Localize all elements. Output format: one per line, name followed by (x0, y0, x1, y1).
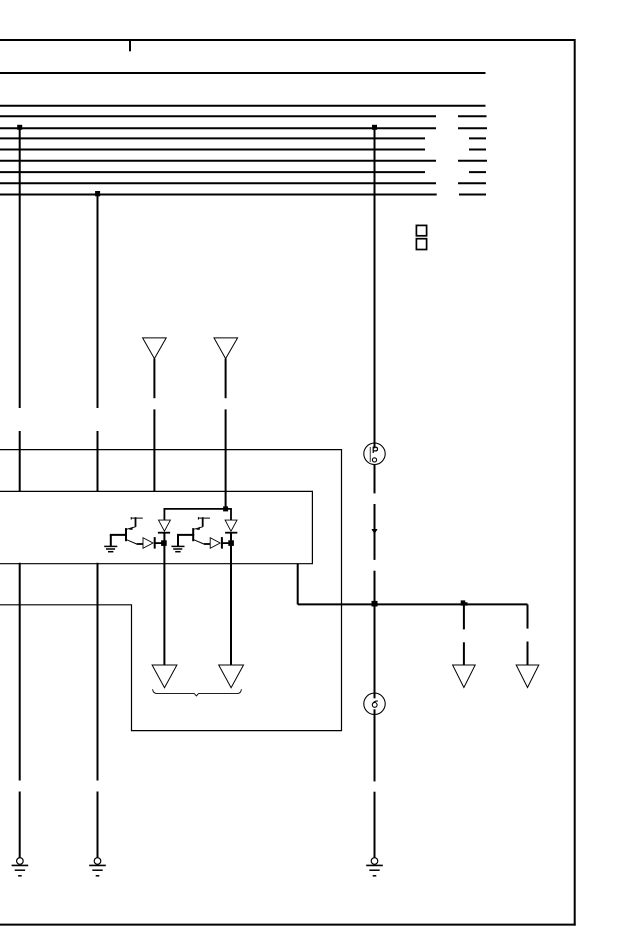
direction arrow on wire W3 (371, 529, 377, 534)
connector squares (416, 225, 426, 249)
off-page arrow triangle T6 (516, 665, 539, 688)
ground G1 (12, 858, 29, 876)
output arrow triangle T4 (219, 665, 244, 688)
diode D2 (204, 537, 231, 549)
junction node at A2 wire (223, 506, 228, 511)
bus wire row 2 (0, 105, 486, 107)
junction node D1-Z1 (161, 540, 167, 546)
junction node on row 4 at wire W1 (17, 125, 22, 130)
bus wire row 6 (0, 149, 486, 151)
junction node on row 4 at wire W3 (372, 125, 377, 130)
ground G3 (366, 858, 383, 876)
output arrow triangle T3 (152, 665, 177, 688)
ground for Q2 (171, 546, 184, 551)
bus wire row 10 (0, 194, 486, 196)
transistor Q1 (126, 517, 143, 544)
wire from A1 (153, 359, 155, 492)
bus wire row 9 (0, 182, 486, 184)
off-page arrow triangle A2 (214, 338, 238, 359)
brace under output arrows (153, 689, 242, 696)
wire W1 vertical (19, 128, 21, 857)
dropper wire to T5 (463, 604, 465, 665)
wire W3 vertical (374, 128, 376, 857)
bus wire row 1 (0, 72, 486, 74)
wire column from Z1 to output arrow (163, 533, 165, 665)
transistor Q2 (193, 517, 210, 544)
base wire of Q2 (177, 535, 194, 546)
dropper wire to T6 (527, 604, 529, 665)
junction node on row 10 at wire W2 (95, 191, 100, 196)
ECU outer box (0, 450, 342, 731)
diode D1 (137, 537, 164, 549)
bus wire row 4 (0, 127, 487, 129)
node wire across IC top (164, 509, 231, 520)
junction node D2-Z2 (228, 540, 234, 546)
bus wire row 7 (0, 160, 487, 162)
base wire of Q1 (110, 535, 127, 546)
connector circle lower (364, 693, 385, 714)
off-page arrow triangle A1 (143, 338, 167, 359)
ground for Q1 (104, 546, 117, 551)
direction arrow on output net (461, 600, 468, 605)
junction node W3 x output net (372, 601, 378, 607)
IC inner box (0, 491, 312, 563)
off-page arrow triangle T5 (453, 665, 476, 688)
output net wire from IC box (298, 564, 528, 605)
zener diode Z1 (158, 520, 171, 533)
ground G2 (89, 858, 106, 876)
connector circle P upper (364, 443, 385, 464)
wire from A2 (225, 359, 227, 508)
wire W2 vertical (97, 195, 99, 858)
bus wire row 3 (0, 115, 487, 117)
wire column from Z2 to output arrow (230, 533, 232, 665)
zener diode Z2 (225, 520, 237, 533)
bus wire row 5 (0, 137, 486, 139)
bus wire row 8 (0, 171, 486, 173)
